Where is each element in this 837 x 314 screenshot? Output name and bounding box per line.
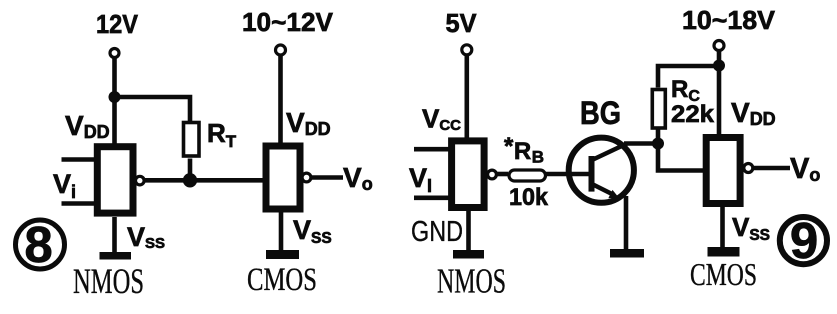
- figure number 8: [16, 220, 65, 269]
- wire U4 output: [754, 166, 790, 171]
- wire J4 down to CMOS top: [717, 66, 722, 136]
- wire RC top to rail: [658, 66, 719, 88]
- terminal 5V: [462, 45, 472, 55]
- wire U3 bottom to ground: [466, 210, 471, 250]
- BG emitter diagonal: [592, 184, 614, 195]
- svg-text:CMOS: CMOS: [247, 262, 317, 298]
- BG base bar: [589, 156, 595, 192]
- wire collector to junction: [624, 141, 658, 146]
- ground CMOS right: [708, 247, 740, 257]
- wire U3 input line 2: [414, 196, 450, 201]
- wire U3 input line 1: [414, 147, 450, 152]
- wire RT bottom to J2: [188, 159, 193, 181]
- terminal 10~18V: [714, 41, 724, 51]
- svg-text:5V: 5V: [446, 8, 478, 38]
- terminal 12V: [110, 49, 119, 58]
- transistor BG circle: [569, 138, 634, 203]
- wire U4 bottom to ground: [720, 206, 725, 248]
- wire RB to base: [546, 172, 591, 177]
- ground NMOS: [100, 252, 132, 260]
- svg-text:22k: 22k: [671, 101, 715, 128]
- wire U1 bottom to ground: [112, 217, 117, 252]
- node junction J3 collector: [652, 138, 664, 150]
- wire 10~12V down to CMOS top: [278, 55, 283, 145]
- wire J1 to RT top: [115, 97, 191, 122]
- U3 output bubble: [488, 170, 497, 179]
- resistor RT: [184, 123, 200, 157]
- BG emitter arrowhead: [608, 190, 619, 198]
- svg-text:9: 9: [790, 212, 818, 269]
- svg-text:GND: GND: [411, 216, 463, 248]
- ground BG: [610, 249, 644, 258]
- resistor RC: [652, 90, 665, 129]
- svg-text:12V: 12V: [96, 9, 139, 39]
- wire terminal to J4: [717, 51, 722, 67]
- svg-text:NMOS: NMOS: [73, 261, 144, 301]
- CMOS block U2: [266, 146, 300, 209]
- wire U2 bottom to ground: [279, 211, 284, 251]
- svg-text:8: 8: [24, 216, 52, 273]
- node junction J2: [183, 173, 197, 187]
- figure number 9: [780, 217, 827, 264]
- wire emitter down: [624, 196, 629, 250]
- NMOS block U1: [97, 147, 133, 213]
- NMOS block U3: [452, 141, 485, 208]
- wire input line 1: [62, 157, 95, 162]
- svg-text:NMOS: NMOS: [437, 262, 506, 301]
- wire 12V down to NMOS top: [112, 58, 117, 146]
- svg-text:10~18V: 10~18V: [682, 5, 776, 35]
- U4 output bubble: [744, 164, 753, 173]
- wire U1 output to CMOS input: [144, 178, 264, 183]
- svg-text:BG: BG: [580, 95, 621, 131]
- node junction J1: [109, 91, 121, 103]
- terminal 10~12V: [276, 45, 286, 55]
- U1 output bubble: [136, 176, 145, 185]
- node junction J4: [713, 60, 725, 72]
- svg-text:10k: 10k: [509, 184, 549, 211]
- wire J3 down to CMOS input: [658, 144, 707, 171]
- wire 5V down to NMOS top: [464, 55, 469, 139]
- svg-text:10~12V: 10~12V: [242, 7, 334, 37]
- resistor RB: [509, 170, 546, 181]
- wire J3 up to RC: [656, 130, 661, 144]
- wire U3 output to RB: [496, 172, 508, 177]
- ground CMOS: [266, 250, 299, 259]
- svg-text:CMOS: CMOS: [690, 256, 757, 292]
- wire input line 2: [62, 201, 95, 206]
- ground NMOS right: [453, 250, 484, 259]
- wire U2 output: [310, 175, 343, 180]
- U2 output bubble: [302, 173, 311, 182]
- CMOS block U4: [706, 138, 740, 204]
- BG collector diagonal: [592, 144, 627, 161]
